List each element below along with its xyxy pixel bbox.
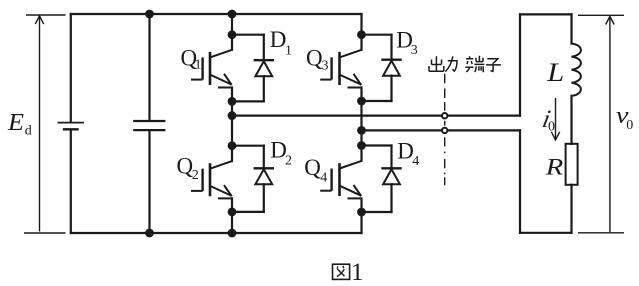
capacitor C bottom plate [134,129,164,131]
wire load right upper [570,14,572,43]
centerline of output terminals (dash-dot) [444,74,446,186]
resistor R box [566,144,578,185]
wire left leg bottom segment [231,198,233,233]
v0 dimension top tick [578,14,624,16]
label 出力端子 (output terminals), hand-drawn kanji [429,56,501,72]
svg-text:L: L [546,58,564,87]
svg-text:D: D [270,27,287,52]
output terminal circle lower [442,128,447,133]
svg-text:Q: Q [304,155,321,180]
wire battery branch lower [70,130,72,234]
svg-text:0: 0 [548,120,555,135]
wire upper load riser [519,14,521,115]
wire left leg middle segment [231,88,233,162]
transistor Q1 (IGBT) [191,50,232,88]
Ed dimension line with up arrow [39,17,41,232]
wire load bottom [520,232,572,234]
diode D4 [362,146,401,213]
wire left leg collector segment [231,14,233,50]
i0 current arrow (down) [555,98,557,139]
wire right leg collector segment [360,14,362,50]
transistor Q2 (IGBT) [191,161,232,198]
wire upper output lead [232,114,520,116]
svg-text:4: 4 [412,154,419,169]
wire lower load drop [519,130,521,232]
caption 図1 (Figure 1) [333,264,350,279]
svg-text:R: R [545,154,564,179]
kanji 出 [429,56,444,71]
svg-text:E: E [7,110,24,136]
wire battery branch upper [70,14,72,122]
svg-text:d: d [25,124,32,139]
wire below R [570,185,572,233]
wire bottom rail [71,232,362,234]
svg-text:Q: Q [306,46,323,71]
node dots on left leg [228,30,237,216]
diode D2 [232,146,273,212]
output terminal circle upper [442,113,447,118]
wire capacitor branch lower [148,130,150,233]
svg-text:1: 1 [195,58,202,73]
kanji 端 [465,56,484,72]
wire right leg bottom segment [360,198,362,233]
wire right leg middle segment [360,88,362,161]
kanji 子 [486,59,501,72]
diode D3 [362,35,401,101]
v0 dimension bottom tick [578,232,624,234]
svg-text:4: 4 [320,170,327,185]
svg-text:1: 1 [351,259,364,286]
inductor L coil [572,44,581,96]
v0 dimension line with up arrow [609,17,611,233]
wire lower output lead [362,129,521,131]
svg-text:2: 2 [285,154,292,169]
svg-text:1: 1 [285,43,292,58]
svg-text:3: 3 [411,43,418,58]
svg-text:3: 3 [322,59,329,74]
wire between L and R [570,96,572,144]
diode D1 [232,35,273,102]
svg-text:0: 0 [626,118,633,133]
node junction dots on rails [145,10,236,238]
kanji 力 [445,56,457,71]
battery E source short plate [64,128,78,130]
transistor Q3 (IGBT) [320,50,361,88]
battery E source long plate [59,122,84,124]
Ed dimension bottom tick [24,232,66,234]
transistor Q4 (IGBT) [320,161,361,199]
Ed dimension top tick [26,14,66,16]
wire top rail [71,13,362,15]
kanji 図 [333,264,350,279]
node dots on right leg [357,30,366,216]
svg-text:2: 2 [192,168,199,183]
wire capacitor branch upper [148,14,150,121]
wire load top [520,13,572,15]
capacitor C top plate [134,120,164,122]
